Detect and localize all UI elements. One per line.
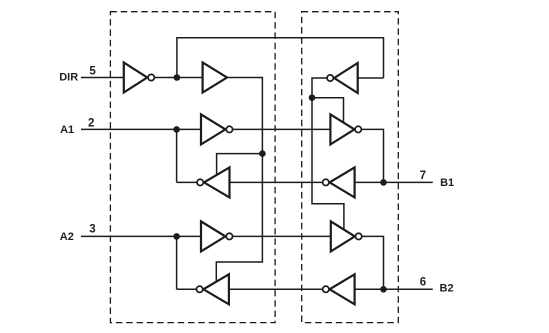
- wire A1 pin: [81, 128, 201, 130]
- buffer U2 (DIR buffer): [203, 63, 227, 93]
- bubble U3 output: [226, 126, 232, 132]
- svg-text:7: 7: [420, 170, 426, 182]
- wire A1 node down to U4 output: [176, 129, 178, 182]
- inverter U6 (B2 to A2 output stage): [203, 274, 229, 304]
- inverter U8 (B1 to A1 first stage): [330, 167, 355, 197]
- wire A2 pin: [81, 235, 201, 237]
- node right rail branch: [309, 94, 316, 101]
- node DIR-bar junction: [174, 74, 181, 81]
- node A2 junction: [173, 233, 180, 240]
- wire U10 input from B2 node: [355, 288, 384, 290]
- wire DIR pin: [81, 77, 124, 79]
- node left rail branch: [259, 150, 266, 157]
- wire A2 node down to U6 output: [176, 236, 178, 289]
- svg-text:5: 5: [89, 65, 96, 77]
- node A1 junction: [173, 126, 180, 133]
- svg-text:3: 3: [89, 224, 95, 236]
- svg-text:B1: B1: [440, 177, 454, 189]
- dashed box left (A-port cell): [110, 12, 275, 323]
- wire U4 input from U8: [230, 181, 323, 183]
- inverter U1 (DIR input inverter): [124, 63, 147, 93]
- wire U5 output to U9 input: [233, 235, 331, 237]
- inverter U4 (B1 to A1 output stage): [204, 167, 230, 197]
- wire U6 output to A2 node: [177, 288, 196, 290]
- svg-text:A1: A1: [60, 124, 74, 136]
- wire U8 input from B1 node: [355, 181, 384, 183]
- wire U1 output to U2 input: [155, 77, 203, 79]
- bubble U10 output: [323, 286, 329, 292]
- wire B1 pin: [384, 181, 433, 183]
- bubble U9 output: [355, 233, 361, 239]
- buffer U9 (B2 output driver): [331, 221, 355, 251]
- bubble U6 output: [196, 286, 202, 292]
- svg-text:2: 2: [88, 117, 94, 129]
- wire U6 input from U10: [229, 288, 322, 290]
- wire U11 input: [358, 77, 384, 79]
- buffer U7 (B1 output driver): [330, 114, 354, 144]
- bubble U5 output: [226, 233, 232, 239]
- svg-text:A2: A2: [60, 231, 74, 243]
- bubble U7 output: [355, 126, 361, 132]
- inverter U10 (B2 to A2 first stage): [330, 274, 355, 304]
- wire enable branch to U4: [217, 154, 263, 175]
- wire U9 output to B2 node: [362, 236, 383, 289]
- bubble U11 output: [327, 75, 333, 81]
- wire U11 output to right enable rail: [312, 78, 344, 230]
- svg-text:6: 6: [420, 276, 426, 288]
- bubble U1 output: [148, 74, 154, 80]
- svg-text:DIR: DIR: [59, 71, 78, 83]
- buffer U3 (A1 to B1 first stage): [201, 114, 225, 144]
- node B2 junction: [380, 286, 387, 293]
- node B1 junction: [380, 179, 387, 186]
- wire node to top rail over to B cell: [177, 38, 384, 78]
- buffer U5 (A2 to B2 first stage): [201, 221, 225, 251]
- bubble U4 output: [197, 179, 203, 185]
- wire B2 pin: [384, 288, 433, 290]
- svg-text:B2: B2: [440, 283, 454, 295]
- dashed box right (B-port cell): [302, 12, 399, 323]
- wire U4 output to A1 node: [177, 181, 197, 183]
- bubble U8 output: [323, 179, 329, 185]
- wire U3 output to U7 input: [233, 128, 331, 130]
- inverter U11 (DIR rail inverter, B side): [334, 63, 358, 93]
- wire enable branch to U7: [312, 98, 344, 123]
- wire U7 output to B1 node: [362, 129, 384, 182]
- wire U2 output to left enable rail: [216, 78, 262, 283]
